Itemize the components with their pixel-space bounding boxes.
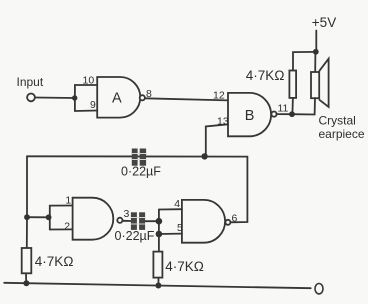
svg-text:11: 11 xyxy=(278,103,289,115)
svg-text:B: B xyxy=(245,108,255,124)
svg-text:5: 5 xyxy=(177,222,183,234)
svg-text:8: 8 xyxy=(146,88,152,100)
svg-text:Crystal: Crystal xyxy=(319,114,356,128)
svg-text:4·7KΩ: 4·7KΩ xyxy=(35,254,74,269)
svg-text:4·7KΩ: 4·7KΩ xyxy=(246,68,285,83)
svg-text:12: 12 xyxy=(213,90,225,102)
svg-text:13: 13 xyxy=(217,115,229,127)
svg-text:0·22µF: 0·22µF xyxy=(121,164,161,178)
svg-text:4: 4 xyxy=(174,198,180,210)
svg-text:2: 2 xyxy=(64,221,70,233)
svg-text:4·7KΩ: 4·7KΩ xyxy=(165,259,204,274)
svg-text:+5V: +5V xyxy=(312,15,336,30)
svg-text:A: A xyxy=(112,91,122,107)
svg-text:1: 1 xyxy=(65,195,71,207)
svg-text:earpiece: earpiece xyxy=(319,127,365,141)
svg-text:6: 6 xyxy=(232,213,238,225)
svg-text:10: 10 xyxy=(83,75,95,87)
svg-text:Input: Input xyxy=(17,75,44,89)
svg-text:9: 9 xyxy=(90,99,96,111)
svg-text:0·22µF: 0·22µF xyxy=(115,229,155,243)
svg-text:3: 3 xyxy=(124,208,130,220)
